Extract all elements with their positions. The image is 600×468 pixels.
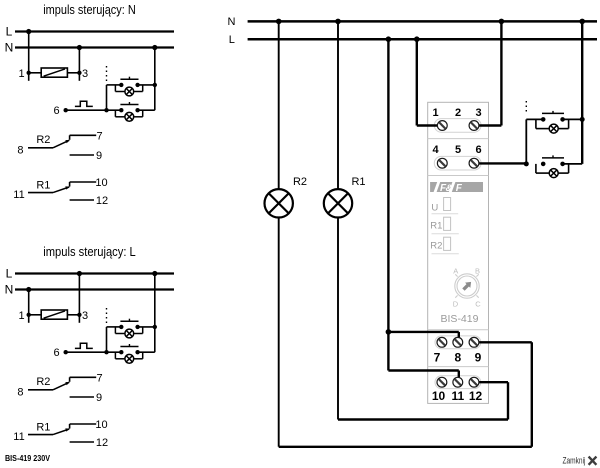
right diagram N rail bbox=[228, 16, 597, 28]
LED U bbox=[431, 198, 458, 214]
svg-text:9: 9 bbox=[475, 351, 482, 365]
wire: terminal 6 to buttons bbox=[66, 109, 122, 111]
push button S2 bbox=[119, 344, 140, 354]
module BIS-419 outline bbox=[428, 102, 489, 403]
terminal slot 1-3 bbox=[434, 119, 481, 133]
lamp E2 bbox=[115, 352, 154, 363]
svg-text:1: 1 bbox=[18, 310, 24, 322]
svg-text:12: 12 bbox=[96, 195, 108, 207]
svg-text:6: 6 bbox=[53, 105, 59, 117]
wire: rail to terminal 1 bbox=[28, 32, 30, 81]
svg-text:impuls sterujący: N: impuls sterujący: N bbox=[43, 2, 136, 17]
contact pin 10 bbox=[70, 419, 108, 431]
node: junction wire6/branch bbox=[104, 350, 108, 354]
svg-text:1: 1 bbox=[432, 107, 438, 119]
svg-text:8: 8 bbox=[17, 144, 23, 156]
N rail bbox=[5, 41, 174, 55]
lamp R1 bbox=[324, 19, 366, 420]
terminal 3 bbox=[77, 310, 88, 322]
svg-text:Zamknij: Zamknij bbox=[563, 455, 586, 465]
terminal 3 bbox=[77, 68, 88, 80]
wire: lamp rail to N/L bbox=[154, 48, 156, 111]
svg-text:3: 3 bbox=[82, 310, 88, 322]
contact pin 7 bbox=[70, 372, 103, 384]
labels 10 11 12 bbox=[432, 389, 483, 403]
lamp R2 bbox=[265, 19, 308, 447]
dotted continuation bbox=[106, 66, 108, 82]
screw terminal 4 bbox=[437, 158, 447, 168]
wire: left rail between button branches bbox=[107, 327, 122, 352]
node: junction on lamp rail bbox=[153, 83, 157, 87]
push button S1 bbox=[119, 319, 140, 329]
node: junction wire6/buttons bbox=[524, 161, 529, 166]
terminal 6 (control input) bbox=[53, 105, 67, 117]
svg-text:L: L bbox=[6, 25, 13, 39]
contact pin 9 bbox=[70, 150, 102, 162]
push button S1 bbox=[119, 77, 140, 87]
L rail bbox=[6, 25, 174, 39]
svg-text:R2: R2 bbox=[36, 134, 50, 146]
svg-text:2: 2 bbox=[455, 107, 461, 119]
wire: L to terminals 8 and 11 bbox=[386, 36, 459, 378]
terminal 1 bbox=[18, 68, 30, 80]
relay contact R2 bbox=[17, 376, 69, 398]
L rail bbox=[6, 267, 174, 281]
svg-text:6: 6 bbox=[53, 347, 59, 359]
svg-text:C: C bbox=[475, 300, 481, 309]
relay contact R2 bbox=[17, 134, 69, 156]
terminal 6 (control input) bbox=[53, 347, 67, 359]
labels 7 8 9 bbox=[434, 351, 482, 365]
push button S3 bbox=[541, 111, 565, 122]
svg-text:R1: R1 bbox=[351, 176, 365, 188]
svg-text:L: L bbox=[229, 34, 235, 46]
title: impuls sterujacy N bbox=[43, 2, 136, 17]
svg-text:BIS-419 230V: BIS-419 230V bbox=[5, 454, 51, 463]
svg-text:11: 11 bbox=[13, 189, 24, 201]
contact pin 10 bbox=[70, 177, 108, 189]
svg-text:N: N bbox=[5, 283, 14, 297]
svg-text:N: N bbox=[5, 41, 14, 55]
pulse symbol bbox=[75, 343, 93, 348]
svg-text:8: 8 bbox=[17, 386, 23, 398]
screw terminal 3 bbox=[469, 121, 479, 131]
svg-text:D: D bbox=[453, 300, 459, 309]
node: rail tap for lamp branch bbox=[152, 45, 157, 50]
F&F logo bbox=[430, 182, 483, 194]
wire: terminal 6 to buttons bbox=[476, 162, 526, 164]
terminal slot 10-12 bbox=[435, 376, 481, 389]
svg-text:N: N bbox=[228, 16, 236, 28]
dotted continuation bbox=[106, 308, 108, 324]
svg-text:R1: R1 bbox=[430, 220, 442, 231]
svg-text:12: 12 bbox=[469, 389, 483, 403]
svg-text:3: 3 bbox=[475, 107, 481, 119]
svg-text:BIS-419: BIS-419 bbox=[441, 313, 479, 325]
svg-text:10: 10 bbox=[432, 389, 446, 403]
wire: left rail between button branches bbox=[107, 85, 122, 110]
caption BIS-419 230V bbox=[5, 454, 51, 463]
title: impuls sterujacy L bbox=[43, 244, 136, 259]
node: junction on button rail bbox=[580, 117, 585, 122]
coil A1 (supply input 1-3) bbox=[29, 310, 80, 319]
svg-text:11: 11 bbox=[451, 389, 464, 403]
right diagram L rail bbox=[229, 34, 597, 46]
svg-text:R2: R2 bbox=[293, 176, 307, 188]
pulse symbol bbox=[75, 101, 93, 106]
svg-text:9: 9 bbox=[96, 392, 102, 404]
svg-text:U: U bbox=[431, 202, 438, 213]
wire: lamp R2 to terminal 9 bbox=[279, 342, 532, 447]
svg-text:5: 5 bbox=[455, 144, 461, 156]
svg-text:6: 6 bbox=[475, 144, 481, 156]
node: rail tap for terminal 1 bbox=[26, 287, 31, 292]
svg-text:R2: R2 bbox=[430, 240, 442, 251]
contact pin 12 bbox=[70, 437, 109, 449]
svg-text:11: 11 bbox=[13, 431, 24, 443]
wire: N to terminal 3 bbox=[476, 19, 504, 126]
wire: rail to terminal 3 bbox=[78, 274, 80, 323]
svg-text:F: F bbox=[456, 183, 463, 194]
screw terminal 8 bbox=[453, 337, 463, 347]
terminal slot 4-6 bbox=[434, 156, 481, 170]
relay contact R1 bbox=[13, 422, 70, 444]
svg-text:9: 9 bbox=[96, 150, 102, 162]
selector knob bbox=[453, 266, 482, 308]
screw terminal 7 bbox=[437, 337, 447, 347]
LED R2 bbox=[430, 237, 459, 254]
LED R1 bbox=[430, 217, 459, 234]
node: junction on lamp rail bbox=[153, 325, 157, 329]
node: rail tap for terminal 3 bbox=[77, 45, 82, 50]
node: rail tap for terminal 1 bbox=[26, 29, 31, 34]
svg-text:R1: R1 bbox=[36, 180, 50, 192]
lamp E4 bbox=[536, 164, 582, 178]
relay contact R1 bbox=[13, 180, 70, 202]
svg-text:R1: R1 bbox=[36, 422, 50, 434]
screw terminal 12 bbox=[469, 377, 479, 387]
svg-text:1: 1 bbox=[18, 68, 24, 80]
wire: button rail to N bbox=[579, 19, 585, 164]
wire: terminal 6 to buttons bbox=[66, 351, 122, 353]
svg-text:B: B bbox=[475, 266, 480, 275]
svg-text:10: 10 bbox=[95, 419, 107, 431]
svg-text:8: 8 bbox=[454, 351, 461, 365]
svg-text:7: 7 bbox=[96, 130, 102, 142]
svg-text:4: 4 bbox=[432, 144, 439, 156]
svg-text:&: & bbox=[446, 183, 453, 194]
node: junction wire6/branch bbox=[104, 108, 108, 112]
contact pin 7 bbox=[70, 130, 103, 142]
label BIS-419 bbox=[441, 313, 479, 325]
svg-text:3: 3 bbox=[82, 68, 88, 80]
labels 1 2 3 bbox=[432, 107, 481, 119]
labels 4 5 6 bbox=[432, 144, 481, 156]
N rail bbox=[5, 283, 174, 297]
svg-text:7: 7 bbox=[96, 372, 102, 384]
screw terminal 10 bbox=[437, 377, 447, 387]
lamp E2 bbox=[115, 110, 154, 121]
wire: L to terminal 1 bbox=[414, 36, 440, 125]
svg-text:12: 12 bbox=[96, 437, 108, 449]
wire: lamp rail to N/L bbox=[154, 274, 156, 353]
svg-text:10: 10 bbox=[95, 177, 107, 189]
contact pin 12 bbox=[70, 195, 109, 207]
node: junction on L feed bbox=[386, 329, 392, 335]
contact pin 9 bbox=[70, 392, 102, 404]
screw terminal 11 bbox=[453, 377, 463, 387]
terminal 1 bbox=[18, 310, 30, 322]
lamp E1 bbox=[115, 327, 154, 338]
push button S2 bbox=[119, 102, 140, 112]
wire: left rail of right buttons bbox=[526, 119, 543, 163]
close control Zamknij bbox=[563, 455, 597, 465]
wire: rail to terminal 1 bbox=[28, 290, 30, 323]
coil A1 (supply input 1-3) bbox=[29, 68, 80, 77]
screw terminal 6 bbox=[469, 158, 479, 168]
wire: rail to terminal 3 bbox=[78, 48, 80, 81]
svg-text:L: L bbox=[6, 267, 13, 281]
lamp E3 bbox=[536, 119, 582, 133]
screw terminal 9 bbox=[469, 337, 479, 347]
node: rail tap for terminal 3 bbox=[77, 271, 82, 276]
push button S4 bbox=[541, 155, 565, 166]
svg-text:A: A bbox=[453, 266, 458, 275]
svg-text:impuls sterujący: L: impuls sterujący: L bbox=[43, 244, 136, 259]
dotted continuation right bbox=[525, 101, 527, 114]
lamp E1 bbox=[115, 85, 154, 96]
terminal slot 7-9 bbox=[435, 336, 481, 349]
node: rail tap for lamp branch bbox=[152, 271, 157, 276]
svg-text:R2: R2 bbox=[36, 376, 50, 388]
svg-text:7: 7 bbox=[434, 351, 441, 365]
wire: lamp R1 to terminal 12 bbox=[338, 382, 508, 419]
screw terminal 1 bbox=[437, 121, 447, 131]
